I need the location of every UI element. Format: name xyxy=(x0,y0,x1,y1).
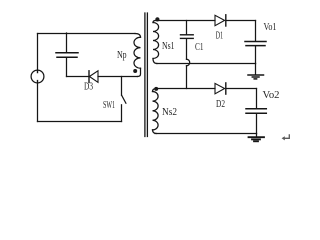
wire secondary rail Vo2 top xyxy=(157,88,257,90)
svg-text:Ns1: Ns1 xyxy=(162,41,175,52)
wire crossover hop xyxy=(187,59,190,65)
diode D1 xyxy=(215,15,225,25)
wire top rail primary xyxy=(38,33,136,35)
svg-text:Ns2: Ns2 xyxy=(162,107,177,118)
svg-text:Vo2: Vo2 xyxy=(263,90,280,101)
transformer core xyxy=(145,13,148,137)
transformer secondary winding Ns1 xyxy=(153,20,157,22)
svg-text:D1: D1 xyxy=(216,30,223,41)
transformer primary winding Np xyxy=(135,34,141,38)
wire mid clamp wire xyxy=(67,76,90,78)
transformer secondary winding Ns2 xyxy=(153,89,157,92)
source AC xyxy=(31,70,44,83)
svg-text:D3: D3 xyxy=(84,81,93,92)
svg-text:Vo1: Vo1 xyxy=(264,22,277,33)
diode D3 xyxy=(88,71,90,83)
svg-text:C1: C1 xyxy=(195,42,204,53)
return-arrow artifact xyxy=(282,134,290,140)
ground Vo2 xyxy=(256,134,258,137)
polarity dot Ns2 xyxy=(154,87,158,91)
svg-text:Np: Np xyxy=(117,50,127,61)
wire rail Ns1 bottom xyxy=(157,63,256,65)
switch SW1 xyxy=(121,77,123,96)
capacitor output Vo2 xyxy=(256,89,258,109)
capacitor C1 xyxy=(186,21,188,35)
wire secondary top rail Vo1 xyxy=(157,20,256,22)
ground Vo1 xyxy=(255,64,257,75)
diode D2 xyxy=(215,83,225,93)
polarity dot Ns1 xyxy=(155,17,159,21)
wire rail Ns2 bottom xyxy=(155,133,257,135)
capacitor output Vo1 xyxy=(255,21,257,41)
polarity dot Np xyxy=(133,69,137,73)
wire left rail xyxy=(37,34,39,122)
wire bottom rail primary xyxy=(38,121,122,123)
capacitor input (clamp) xyxy=(66,33,68,52)
svg-text:D2: D2 xyxy=(216,99,225,110)
svg-text:SW1: SW1 xyxy=(103,100,115,111)
